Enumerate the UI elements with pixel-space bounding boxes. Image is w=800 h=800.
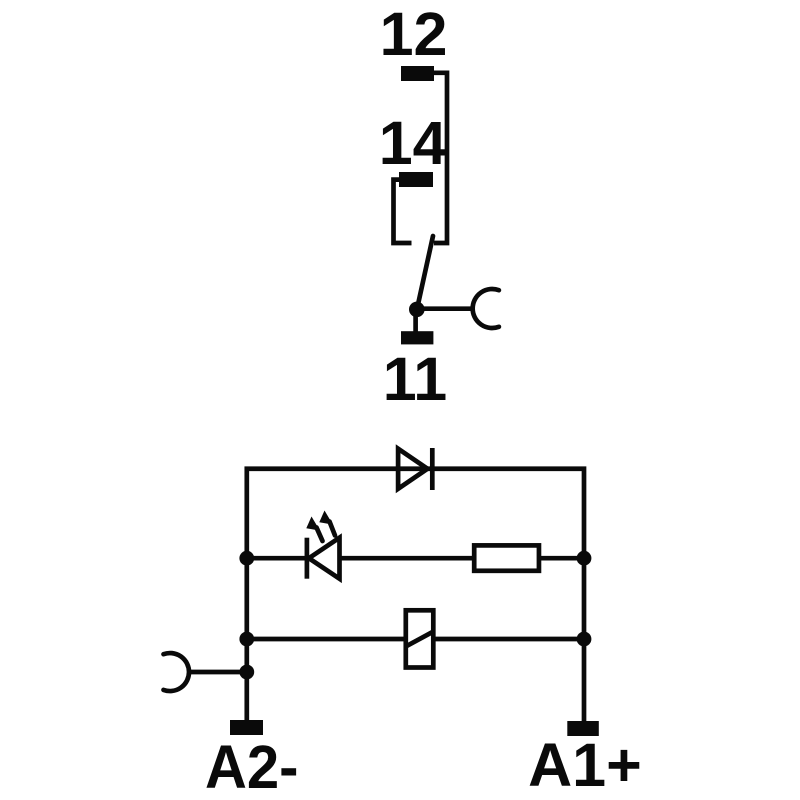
svg-text:14: 14 xyxy=(379,109,447,177)
terminal 11 xyxy=(401,331,433,344)
svg-text:A1+: A1+ xyxy=(528,731,642,799)
terminal 12 xyxy=(401,66,434,81)
terminal 14 xyxy=(399,172,433,187)
bridge socket (left, opening left) xyxy=(164,653,190,691)
resistor R xyxy=(474,545,539,570)
wire socket to A2 rail xyxy=(189,670,247,675)
LED cathode bar xyxy=(305,538,310,579)
wire 12 to vertical xyxy=(432,73,447,243)
wire 14 bracket to fixed contact xyxy=(394,180,412,243)
node resistor row right xyxy=(577,551,592,566)
relay coil K xyxy=(406,610,434,667)
diode D (freewheeling), anode left xyxy=(398,449,427,489)
wire LED row left xyxy=(247,556,305,561)
pivot node xyxy=(409,302,425,318)
LED arrow 1 xyxy=(306,517,322,542)
terminal A1 xyxy=(567,721,599,736)
wire LED to resistor xyxy=(340,556,475,561)
diode cathode bar xyxy=(430,448,435,490)
bridge socket (right, opening right) xyxy=(473,289,499,328)
wire coil to right rail xyxy=(434,637,584,642)
wire pivot to terminal 11 xyxy=(413,309,418,332)
wire top of coil box (freewheel diode branch) xyxy=(247,469,584,721)
node coil row right xyxy=(577,632,592,647)
svg-text:A2-: A2- xyxy=(205,733,299,800)
svg-text:11: 11 xyxy=(383,345,448,413)
coil diagonal xyxy=(406,631,434,646)
node A2 socket junction xyxy=(239,665,254,680)
LED arrow 2 xyxy=(319,511,335,536)
switch lever (movable contact 11) xyxy=(417,236,433,309)
wire pivot to bridge socket xyxy=(417,306,473,311)
wire resistor to right rail xyxy=(539,556,584,561)
svg-text:12: 12 xyxy=(380,0,448,68)
node coil row left xyxy=(239,632,254,647)
node LED row left xyxy=(239,551,254,566)
wire coil row left xyxy=(247,637,405,642)
LED triangle (pointing left) xyxy=(309,538,340,579)
terminal A2 xyxy=(230,720,263,735)
